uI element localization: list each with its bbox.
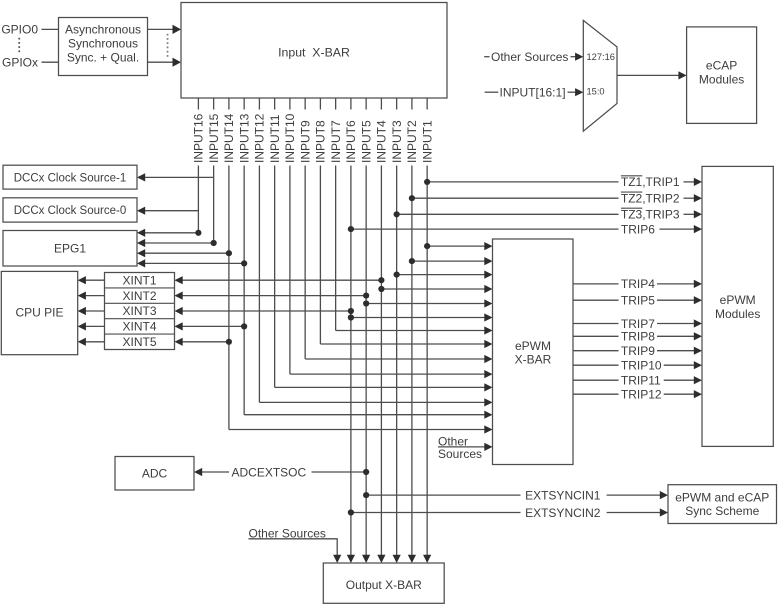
wire INPUT15 to EPG1	[145, 242, 214, 244]
wire XINT5 to CPU PIE	[86, 341, 105, 343]
wire INPUT5 vertical run	[365, 166, 367, 556]
svg-text:XINT3: XINT3	[122, 304, 156, 318]
wire INPUT5 to XINT2	[183, 295, 367, 297]
wire INPUT16 vertical run	[197, 166, 199, 233]
svg-text:INPUT4: INPUT4	[375, 120, 389, 163]
block CPU PIE	[1, 271, 77, 354]
wire TRIP8 to ePWM Modules	[657, 335, 694, 337]
wire INPUT2 vertical run	[411, 166, 413, 556]
arrowhead INPUT5 into Output X-BAR	[362, 555, 370, 563]
wire INPUT2 to ePWM X-BAR	[412, 260, 485, 262]
wire TRIP11 from ePWM X-BAR	[573, 379, 619, 381]
wire TRIP12 to ePWM Modules	[664, 393, 694, 395]
svg-text:XINT5: XINT5	[122, 335, 156, 349]
svg-text:INPUT[16:1]: INPUT[16:1]	[500, 86, 566, 100]
wire TRIP5 from ePWM X-BAR	[573, 299, 619, 301]
wire INPUT13 stub from Input X-BAR	[243, 98, 245, 110]
block ePWM and eCAP Sync Scheme	[668, 485, 777, 524]
svg-text:Input X-BAR: Input X-BAR	[278, 45, 350, 59]
svg-text:GPIO0: GPIO0	[1, 22, 38, 36]
arrowhead INPUT2 into Output X-BAR	[408, 555, 416, 563]
svg-text:DCCx Clock Source-0: DCCx Clock Source-0	[14, 205, 126, 217]
wire sync block to Input X-BAR (upper)	[148, 28, 174, 30]
svg-text:X-BAR: X-BAR	[515, 353, 552, 367]
wire INPUT3 stub from Input X-BAR	[396, 98, 398, 110]
block DCCx Clock Source-1	[3, 165, 137, 189]
wire INPUT3 vertical run	[396, 166, 398, 556]
wire INPUT1 vertical run	[426, 166, 428, 556]
wire INPUT11 stub from Input X-BAR	[274, 98, 276, 110]
svg-text:GPIOx: GPIOx	[2, 55, 38, 69]
block eCAP Modules	[687, 27, 757, 124]
wire GPIO0 to sync block	[42, 28, 59, 30]
wire INPUT9 vertical run	[304, 166, 306, 360]
overbar on TZ3	[621, 207, 642, 209]
wire GPIOx to sync block	[42, 61, 59, 63]
svg-text:INPUT9: INPUT9	[298, 120, 312, 163]
wire Other Sources to ePWM X-BAR	[438, 446, 485, 448]
svg-text:TRIP8: TRIP8	[621, 330, 655, 344]
svg-text:EXTSYNCIN1: EXTSYNCIN1	[525, 488, 601, 502]
wire INPUT12 stub from Input X-BAR	[258, 98, 260, 110]
junction dot INPUT15/EPG1 row	[211, 240, 217, 246]
wire INPUT11 to ePWM X-BAR	[275, 386, 485, 388]
wire INPUT6 to ePWM X-BAR	[351, 317, 485, 319]
svg-text:XINT1: XINT1	[122, 273, 156, 287]
wire XINT2 to CPU PIE	[86, 295, 105, 297]
wire XINT3 to CPU PIE	[86, 310, 105, 312]
svg-text:INPUT5: INPUT5	[359, 120, 373, 163]
wire INPUT15 stub from Input X-BAR	[213, 98, 215, 110]
wire TRIP10 to ePWM Modules	[664, 364, 694, 366]
wire ADCEXTSOC from INPUT5 to ADC	[202, 471, 229, 473]
wire INPUT14 to XINT5	[183, 341, 229, 343]
svg-text:XINT4: XINT4	[122, 320, 156, 334]
svg-text:127:16: 127:16	[587, 52, 615, 62]
wire TRIP5 to ePWM Modules	[657, 299, 694, 301]
wire INPUT5 to ePWM X-BAR	[366, 303, 484, 305]
junction dot INPUT5/ePWM X-BAR row	[363, 300, 369, 306]
junction dot INPUT2/ePWM X-BAR row	[409, 258, 415, 264]
junction dot INPUT13/EPG1 row	[241, 260, 247, 266]
junction dot INPUT14/XINT5 row	[226, 339, 232, 345]
block EPG1	[3, 231, 137, 267]
svg-text:XINT2: XINT2	[122, 289, 156, 303]
svg-text:eCAP: eCAP	[706, 58, 737, 72]
svg-text:ADC: ADC	[142, 466, 168, 480]
wire INPUT8 stub from Input X-BAR	[319, 98, 321, 110]
svg-text:Other Sources: Other Sources	[491, 50, 568, 64]
junction dot INPUT5/XINT2 row	[363, 293, 369, 299]
junction dot INPUT13/XINT4 row	[241, 323, 247, 329]
wire INPUT13 to EPG1	[145, 262, 244, 264]
svg-text:TRIP12: TRIP12	[621, 388, 662, 402]
wire INPUT5 stub from Input X-BAR	[365, 98, 367, 110]
wire INPUT8 to ePWM X-BAR	[320, 343, 484, 345]
wire INPUT10 stub from Input X-BAR	[289, 98, 291, 110]
block DCCx Clock Source-0	[3, 198, 137, 222]
svg-text:ePWM and eCAP: ePWM and eCAP	[675, 491, 769, 505]
wire TRIP9 to ePWM Modules	[657, 350, 694, 352]
wire INPUT13 to XINT4	[183, 325, 245, 327]
wire TRIP7 from ePWM X-BAR	[573, 323, 619, 325]
wire INPUT15 to DCCx Clock Source-1	[145, 176, 214, 178]
junction dot INPUT4/ePWM X-BAR row	[378, 286, 384, 292]
wire sync block to Input X-BAR (lower)	[148, 61, 174, 63]
svg-text:ePWM: ePWM	[515, 339, 551, 353]
wire INPUT1 row to ePWM Modules (TZ1,TRIP1)	[427, 181, 618, 183]
junction dot INPUT6/EXTSYNCIN2	[348, 509, 354, 515]
junction dot INPUT6/TRIP6 row	[348, 226, 354, 232]
wire EXTSYNCIN1 from INPUT5	[366, 494, 520, 496]
svg-text:CPU PIE: CPU PIE	[15, 305, 63, 319]
svg-text:ADCEXTSOC: ADCEXTSOC	[232, 465, 307, 479]
wire INPUT7 stub from Input X-BAR	[335, 98, 337, 110]
wire XINT1 to CPU PIE	[86, 279, 105, 281]
net label Other Sources (mux)	[484, 56, 489, 58]
svg-text:INPUT15: INPUT15	[207, 113, 221, 163]
svg-text:INPUT6: INPUT6	[344, 120, 358, 163]
svg-text:TRIP5: TRIP5	[621, 294, 655, 308]
wire INPUT[16:1] to mux	[568, 91, 576, 93]
arrowhead INPUT6 into Output X-BAR	[347, 555, 355, 563]
wire INPUT14 vertical run	[228, 166, 230, 430]
wire TZ2,TRIP2 to ePWM Modules arrow	[684, 197, 695, 199]
svg-text:EPG1: EPG1	[54, 241, 86, 255]
svg-text:TRIP10: TRIP10	[621, 359, 662, 373]
wire INPUT16 to EPG1	[145, 232, 198, 234]
wire TRIP7 to ePWM Modules	[657, 323, 694, 325]
wire TRIP6 to ePWM Modules arrow	[660, 228, 695, 230]
svg-text:EXTSYNCIN2: EXTSYNCIN2	[525, 506, 601, 520]
wire INPUT14 to ePWM X-BAR	[229, 429, 485, 431]
junction dot INPUT16/EPG1 row	[195, 230, 201, 236]
svg-text:Modules: Modules	[699, 72, 744, 86]
svg-text:Sync Scheme: Sync Scheme	[685, 504, 759, 518]
wire INPUT2 row to ePWM Modules (TZ2,TRIP2)	[412, 197, 619, 199]
wire TZ1,TRIP1 to ePWM Modules arrow	[684, 181, 695, 183]
junction dot INPUT1/ePWM X-BAR row	[424, 243, 430, 249]
wire INPUT14 stub from Input X-BAR	[228, 98, 230, 110]
wire INPUT6 stub from Input X-BAR	[350, 98, 352, 110]
wire INPUT16 stub from Input X-BAR	[197, 98, 199, 110]
svg-text:INPUT10: INPUT10	[283, 113, 297, 163]
junction dot INPUT2/TZ2,TRIP2 row	[409, 195, 415, 201]
wire XINT4 to CPU PIE	[86, 325, 105, 327]
wire INPUT7 to ePWM X-BAR	[336, 330, 485, 332]
arrowhead INPUT3 into Output X-BAR	[393, 555, 401, 563]
svg-text:15:0: 15:0	[587, 86, 605, 96]
junction dot INPUT5/EXTSYNCIN1	[363, 492, 369, 498]
wire INPUT9 stub from Input X-BAR	[304, 98, 306, 110]
arrowhead INPUT4 into Output X-BAR	[377, 555, 385, 563]
wire INPUT4 stub from Input X-BAR	[380, 98, 382, 110]
wire INPUT4 to XINT1	[183, 279, 382, 281]
svg-text:TRIP4: TRIP4	[621, 277, 655, 291]
svg-text:INPUT2: INPUT2	[405, 120, 419, 163]
svg-text:Output X-BAR: Output X-BAR	[346, 578, 422, 592]
wire INPUT14 to EPG1	[145, 252, 229, 254]
block XINT1-XINT5 register stack	[105, 273, 175, 350]
block Asynchronous/Synchronous Sync.+Qual.	[59, 18, 148, 76]
junction dot INPUT6/ePWM X-BAR row	[348, 314, 354, 320]
wire INPUT3 to ePWM X-BAR	[397, 274, 485, 276]
wire INPUT1 to ePWM X-BAR	[427, 245, 484, 247]
svg-text:INPUT7: INPUT7	[329, 120, 343, 163]
mux 128:1 select polygon	[583, 20, 617, 131]
block Input X-BAR	[181, 3, 447, 99]
block ePWM Modules	[702, 166, 773, 446]
wire INPUT10 vertical run	[289, 166, 291, 375]
junction dot INPUT6/XINT3 row	[348, 308, 354, 314]
svg-text:Sources: Sources	[438, 447, 482, 461]
svg-text:TZ2,TRIP2: TZ2,TRIP2	[621, 192, 680, 206]
svg-text:TRIP6: TRIP6	[621, 222, 655, 236]
svg-text:INPUT14: INPUT14	[222, 113, 236, 163]
junction dot INPUT3/ePWM X-BAR row	[394, 272, 400, 278]
wire INPUT8 vertical run	[319, 166, 321, 345]
svg-text:INPUT13: INPUT13	[237, 113, 251, 163]
wire INPUT7 vertical run	[335, 166, 337, 331]
dotted ellipsis between GPIO0 and GPIOx	[18, 38, 20, 40]
svg-text:INPUT16: INPUT16	[192, 113, 206, 163]
svg-text:Modules: Modules	[715, 307, 760, 321]
svg-text:INPUT11: INPUT11	[268, 114, 282, 163]
wire mux output to eCAP Modules	[617, 74, 679, 76]
wire EXTSYNCIN2 to sync scheme block	[607, 512, 660, 514]
wire INPUT12 to ePWM X-BAR	[259, 401, 484, 403]
wire TRIP4 from ePWM X-BAR	[573, 283, 619, 285]
wire INPUT15 vertical run	[213, 166, 215, 244]
wire Other Sources to mux	[571, 56, 576, 58]
svg-text:INPUT8: INPUT8	[314, 120, 328, 163]
svg-text:Synchronous: Synchronous	[68, 36, 138, 50]
junction dot INPUT5/ADCEXTSOC	[363, 469, 369, 475]
wire INPUT11 vertical run	[274, 166, 276, 388]
wire Other Sources elbow to Output X-BAR	[249, 539, 338, 555]
wire INPUT9 to ePWM X-BAR	[305, 358, 484, 360]
block ePWM X-BAR	[493, 239, 574, 465]
wire TRIP9 from ePWM X-BAR	[573, 350, 619, 352]
wire INPUT1 stub from Input X-BAR	[426, 98, 428, 110]
wire TRIP10 from ePWM X-BAR	[573, 364, 619, 366]
junction dot INPUT14/EPG1 row	[226, 250, 232, 256]
net label INPUT[16:1]	[485, 91, 499, 93]
svg-text:Asynchronous: Asynchronous	[65, 23, 141, 37]
wire TRIP4 to ePWM Modules	[657, 283, 694, 285]
wire INPUT6 vertical run	[350, 166, 352, 556]
svg-text:INPUT12: INPUT12	[253, 113, 267, 163]
junction dot INPUT3/TZ3,TRIP3 row	[394, 211, 400, 217]
wire INPUT13 to ePWM X-BAR	[244, 414, 484, 416]
svg-text:TRIP9: TRIP9	[621, 344, 655, 358]
svg-text:TRIP11: TRIP11	[621, 374, 661, 388]
wire INPUT16 to DCCx Clock Source-0	[145, 210, 198, 212]
wire EXTSYNCIN1 to sync scheme block	[607, 494, 660, 496]
wire TRIP12 from ePWM X-BAR	[573, 393, 619, 395]
wire TZ3,TRIP3 to ePWM Modules arrow	[684, 213, 695, 215]
svg-text:INPUT3: INPUT3	[390, 120, 404, 163]
block Output X-BAR	[323, 563, 444, 603]
wire INPUT6 row to ePWM Modules (TRIP6)	[351, 228, 619, 230]
wire INPUT2 stub from Input X-BAR	[411, 98, 413, 110]
block ADC	[115, 457, 194, 491]
wire EXTSYNCIN2 from INPUT6	[351, 512, 521, 514]
svg-text:INPUT1: INPUT1	[420, 120, 434, 163]
wire ADCEXTSOC right segment	[312, 471, 367, 473]
wire INPUT4 to ePWM X-BAR	[381, 288, 484, 290]
svg-text:DCCx Clock Source-1: DCCx Clock Source-1	[14, 172, 126, 184]
junction dot INPUT4/XINT1 row	[378, 277, 384, 283]
overbar on TZ2	[621, 191, 642, 193]
svg-text:ePWM: ePWM	[720, 293, 756, 307]
wire INPUT6 to XINT3	[183, 310, 351, 312]
arrowhead INPUT1 into Output X-BAR	[423, 555, 431, 563]
wire TRIP8 from ePWM X-BAR	[573, 335, 619, 337]
wire INPUT13 vertical run	[243, 166, 245, 415]
dotted ellipsis between arrows	[167, 34, 169, 36]
svg-text:Sync. + Qual.: Sync. + Qual.	[67, 50, 139, 64]
wire INPUT4 vertical run	[380, 166, 382, 556]
svg-text:TZ3,TRIP3: TZ3,TRIP3	[621, 208, 680, 222]
overbar on TZ1	[621, 175, 642, 177]
wire INPUT10 to ePWM X-BAR	[290, 373, 485, 375]
junction dot INPUT1/TZ1,TRIP1 row	[424, 179, 430, 185]
wire TRIP11 to ePWM Modules	[664, 379, 694, 381]
wire INPUT3 row to ePWM Modules (TZ3,TRIP3)	[397, 213, 619, 215]
wire INPUT12 vertical run	[258, 166, 260, 403]
svg-text:TZ1,TRIP1: TZ1,TRIP1	[621, 175, 680, 189]
